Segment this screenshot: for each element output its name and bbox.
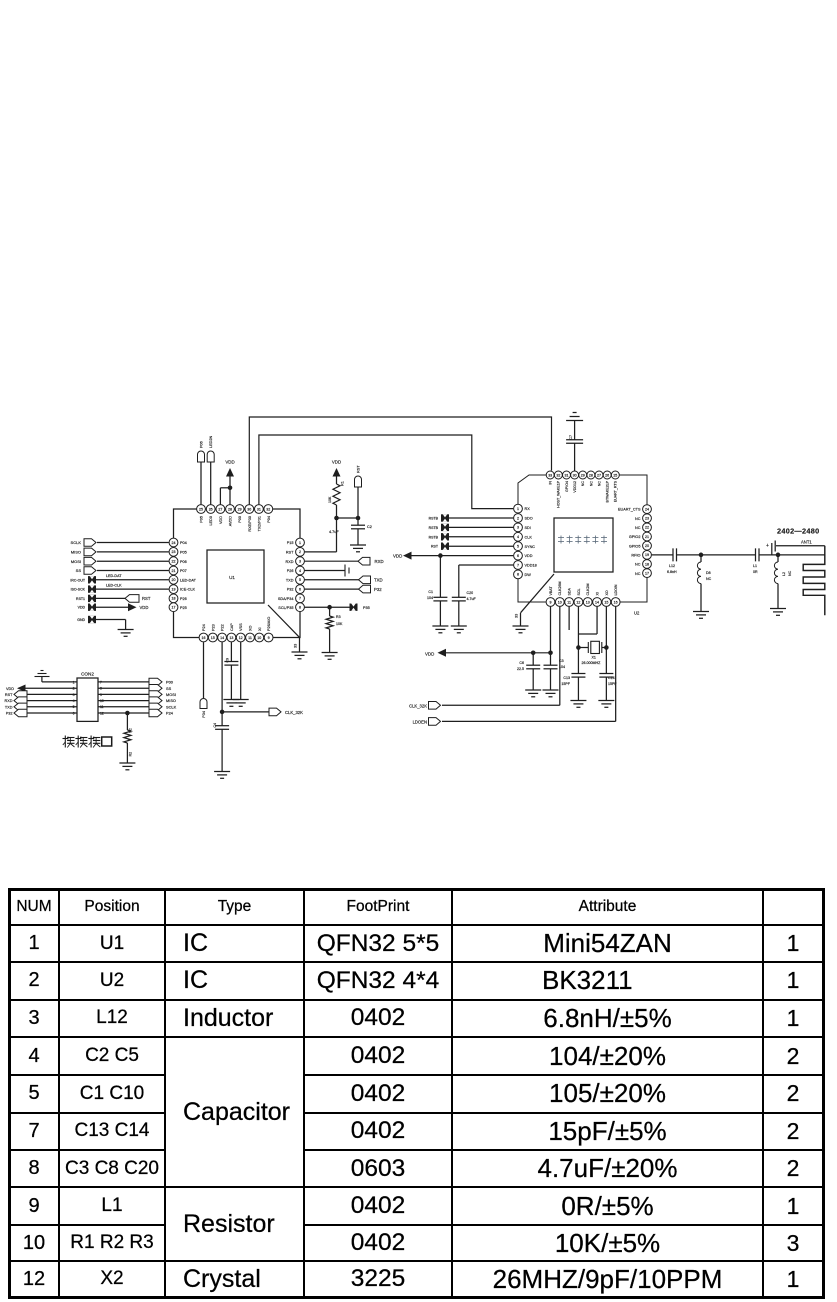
svg-text:LED0: LED0 <box>209 516 213 526</box>
svg-text:TXD: TXD <box>5 705 13 709</box>
svg-text:4.7uF: 4.7uF <box>467 597 477 601</box>
svg-text:22.5: 22.5 <box>517 667 524 671</box>
svg-text:D8: D8 <box>706 571 711 575</box>
svg-text:RXD: RXD <box>375 559 384 564</box>
svg-text:1: 1 <box>73 680 75 684</box>
svg-text:XI: XI <box>595 592 599 595</box>
svg-text:SS: SS <box>166 686 172 691</box>
svg-text:GPIO2: GPIO2 <box>629 535 641 539</box>
svg-text:6: 6 <box>517 554 519 558</box>
svg-text:28: 28 <box>228 507 232 511</box>
svg-text:DW: DW <box>525 573 532 577</box>
svg-text:P26/AIO: P26/AIO <box>267 617 271 631</box>
svg-text:CLK: CLK <box>525 535 533 539</box>
svg-text:12: 12 <box>239 636 243 640</box>
svg-text:11: 11 <box>567 600 571 604</box>
svg-text:26: 26 <box>605 473 609 477</box>
svg-text:20: 20 <box>172 578 176 582</box>
svg-text:VSS: VSS <box>239 623 243 631</box>
svg-text:25: 25 <box>613 473 617 477</box>
svg-text:LED-DAT: LED-DAT <box>106 574 122 578</box>
svg-text:3: 3 <box>73 693 75 697</box>
svg-text:4.7uF: 4.7uF <box>329 530 339 534</box>
svg-text:P04: P04 <box>267 516 271 523</box>
svg-text:LED-CLK: LED-CLK <box>106 583 122 587</box>
svg-text:6: 6 <box>73 711 75 715</box>
svg-text:ICE-CLK: ICE-CLK <box>180 588 195 592</box>
svg-text:16: 16 <box>614 600 618 604</box>
svg-text:10K: 10K <box>328 496 332 503</box>
svg-text:TXD: TXD <box>286 578 294 582</box>
svg-text:16: 16 <box>202 636 206 640</box>
svg-text:32: 32 <box>266 507 270 511</box>
svg-text:14: 14 <box>220 636 224 640</box>
svg-text:IRC-OUT: IRC-OUT <box>70 578 85 582</box>
svg-text:1: 1 <box>517 507 519 511</box>
svg-text:BTWAKE2LP: BTWAKE2LP <box>606 480 610 502</box>
svg-text:P26: P26 <box>287 569 294 573</box>
svg-text:4: 4 <box>73 699 75 703</box>
svg-text:14: 14 <box>595 600 599 604</box>
svg-text:L1: L1 <box>753 564 757 568</box>
svg-text:23: 23 <box>645 517 649 521</box>
svg-text:L2: L2 <box>782 572 786 576</box>
svg-text:C13: C13 <box>563 676 570 680</box>
svg-text:29: 29 <box>581 473 585 477</box>
svg-text:X1: X1 <box>592 656 596 660</box>
svg-text:ANT1: ANT1 <box>801 540 812 545</box>
svg-text:5: 5 <box>299 578 301 582</box>
svg-text:27: 27 <box>597 473 601 477</box>
svg-text:15PF: 15PF <box>561 682 570 686</box>
svg-text:22: 22 <box>645 526 649 530</box>
svg-text:NC: NC <box>635 526 641 530</box>
svg-text:LDOEN: LDOEN <box>413 720 427 725</box>
svg-text:GPIO5: GPIO5 <box>629 544 641 548</box>
svg-text:CAP: CAP <box>230 623 234 631</box>
svg-text:20: 20 <box>645 544 649 548</box>
svg-text:NC: NC <box>597 481 601 487</box>
svg-text:7: 7 <box>299 597 301 601</box>
svg-text:30: 30 <box>573 473 577 477</box>
svg-text:7: 7 <box>100 680 102 684</box>
svg-text:2: 2 <box>73 687 75 691</box>
svg-text:23: 23 <box>172 550 176 554</box>
svg-text:R2: R2 <box>129 752 133 756</box>
svg-text:VDD: VDD <box>225 460 234 465</box>
svg-text:2: 2 <box>517 516 519 520</box>
svg-text:9: 9 <box>550 600 552 604</box>
svg-text:26.000MHZ: 26.000MHZ <box>582 661 602 665</box>
svg-text:28: 28 <box>589 473 593 477</box>
svg-text:AVDD: AVDD <box>229 516 233 527</box>
svg-text:MOSI: MOSI <box>166 692 176 697</box>
svg-text:R1: R1 <box>341 481 345 486</box>
svg-text:SS: SS <box>76 568 82 573</box>
svg-text:RST: RST <box>5 693 13 697</box>
svg-text:21: 21 <box>172 569 176 573</box>
svg-text:104: 104 <box>427 596 433 600</box>
svg-text:RXD: RXD <box>285 560 293 564</box>
svg-text:RXE/P30: RXE/P30 <box>248 516 252 532</box>
svg-text:11: 11 <box>100 705 104 709</box>
svg-text:U2: U2 <box>634 611 640 616</box>
svg-text:30: 30 <box>247 507 251 511</box>
svg-text:P00: P00 <box>238 516 242 523</box>
svg-text:CLK_32K: CLK_32K <box>409 704 427 709</box>
svg-text:NC: NC <box>635 572 641 576</box>
svg-text:10: 10 <box>257 636 261 640</box>
svg-text:2402—2480: 2402—2480 <box>777 527 819 536</box>
svg-text:P24: P24 <box>166 711 174 716</box>
svg-text:SCLK: SCLK <box>71 540 82 545</box>
svg-text:ISO-SCK: ISO-SCK <box>71 588 86 592</box>
svg-text:TXD/P31: TXD/P31 <box>257 516 261 531</box>
svg-text:P34: P34 <box>202 711 206 718</box>
svg-text:26: 26 <box>209 507 213 511</box>
svg-text:12: 12 <box>100 711 104 715</box>
svg-text:3: 3 <box>517 526 519 530</box>
svg-text:VDD18: VDD18 <box>525 564 537 568</box>
svg-text:VDD12: VDD12 <box>573 481 577 493</box>
svg-text:18: 18 <box>645 562 649 566</box>
svg-text:8: 8 <box>299 606 301 610</box>
svg-text:P05: P05 <box>180 551 187 555</box>
svg-text:VBAT: VBAT <box>549 586 553 596</box>
svg-text:VDD: VDD <box>332 460 341 465</box>
svg-text:VDD: VDD <box>78 606 86 610</box>
svg-text:31: 31 <box>257 507 261 511</box>
svg-text:NC: NC <box>706 577 712 581</box>
svg-text:8: 8 <box>100 687 102 691</box>
svg-text:6.8nH: 6.8nH <box>667 570 677 574</box>
svg-text:XO: XO <box>249 625 253 631</box>
svg-text:P35: P35 <box>363 606 370 610</box>
svg-text:8: 8 <box>517 573 519 577</box>
svg-text:VDD: VDD <box>393 554 402 559</box>
svg-text:4: 4 <box>517 535 519 539</box>
svg-text:MISO: MISO <box>71 550 81 555</box>
svg-text:33: 33 <box>548 473 552 477</box>
svg-text:24: 24 <box>172 541 176 545</box>
svg-text:P32: P32 <box>287 588 294 592</box>
svg-text:P25: P25 <box>180 606 187 610</box>
svg-text:27: 27 <box>218 507 222 511</box>
svg-text:10: 10 <box>558 600 562 604</box>
svg-text:0R: 0R <box>753 570 758 574</box>
svg-text:21: 21 <box>645 535 649 539</box>
svg-text:25: 25 <box>199 507 203 511</box>
svg-text:TXD: TXD <box>374 578 383 583</box>
svg-text:3: 3 <box>299 560 301 564</box>
svg-text:CON2: CON2 <box>81 672 94 677</box>
svg-text:R3: R3 <box>336 615 341 619</box>
svg-text:VDD: VDD <box>6 687 14 691</box>
svg-text:P24: P24 <box>202 624 206 631</box>
svg-text:5: 5 <box>73 705 75 709</box>
svg-text:VDD: VDD <box>425 652 434 657</box>
svg-text:7: 7 <box>517 563 519 567</box>
svg-text:EUART_CTS: EUART_CTS <box>618 508 641 512</box>
svg-text:P15: P15 <box>287 541 294 545</box>
svg-text:P23: P23 <box>211 624 215 631</box>
svg-text:XI: XI <box>258 627 262 631</box>
svg-text:LDOIN: LDOIN <box>614 584 618 595</box>
svg-text:NC: NC <box>635 517 641 521</box>
svg-text:CLK_32K: CLK_32K <box>285 710 303 715</box>
svg-text:11: 11 <box>248 636 252 640</box>
svg-text:P26: P26 <box>180 597 187 601</box>
svg-text:P05: P05 <box>200 516 204 523</box>
svg-text:SDI: SDI <box>525 526 531 530</box>
svg-text:17: 17 <box>645 571 649 575</box>
svg-text:18: 18 <box>172 597 176 601</box>
svg-text:31: 31 <box>564 473 568 477</box>
svg-text:19: 19 <box>172 587 176 591</box>
svg-text:4: 4 <box>299 569 301 573</box>
svg-text:13: 13 <box>586 600 590 604</box>
svg-text:22: 22 <box>172 560 176 564</box>
svg-text:P04: P04 <box>180 541 187 545</box>
svg-text:P32: P32 <box>6 712 13 716</box>
svg-text:RST: RST <box>142 596 151 601</box>
svg-text:EUART_RTS: EUART_RTS <box>614 480 618 502</box>
svg-text:29: 29 <box>238 507 242 511</box>
svg-text:GPIO4: GPIO4 <box>565 481 569 492</box>
svg-text:13: 13 <box>229 636 233 640</box>
svg-text:+: + <box>766 543 769 549</box>
svg-text:LED-DAT: LED-DAT <box>180 578 197 582</box>
svg-text:SDO: SDO <box>525 517 533 521</box>
svg-text:RSTB: RSTB <box>429 526 439 530</box>
svg-text:9: 9 <box>268 636 270 640</box>
svg-text:P32: P32 <box>374 587 382 592</box>
svg-text:P06: P06 <box>180 560 187 564</box>
svg-text:MOSI: MOSI <box>71 559 81 564</box>
svg-text:33: 33 <box>294 644 298 648</box>
svg-text:C20: C20 <box>467 591 474 595</box>
svg-text:32: 32 <box>556 473 560 477</box>
svg-text:2: 2 <box>299 550 301 554</box>
svg-text:15: 15 <box>211 636 215 640</box>
svg-text:C4: C4 <box>213 723 217 728</box>
svg-text:NC: NC <box>589 481 593 487</box>
svg-text:RST: RST <box>286 551 294 555</box>
svg-text:P22: P22 <box>221 624 225 631</box>
svg-text:MISO: MISO <box>166 698 176 703</box>
svg-text:6: 6 <box>299 587 301 591</box>
svg-text:C7: C7 <box>569 435 573 440</box>
svg-text:17: 17 <box>172 606 176 610</box>
svg-text:VDD: VDD <box>140 605 149 610</box>
svg-text:P00: P00 <box>166 680 174 685</box>
svg-text:VDD: VDD <box>219 516 223 524</box>
svg-text:RXD: RXD <box>4 699 12 703</box>
svg-text:IN: IN <box>549 481 553 485</box>
svg-text:SCL: SCL <box>577 589 581 596</box>
svg-text:XO: XO <box>605 590 609 595</box>
svg-text:12: 12 <box>576 600 580 604</box>
svg-text:VDD: VDD <box>525 554 533 558</box>
svg-text:CLK2M: CLK2M <box>586 584 590 596</box>
svg-text:15: 15 <box>604 600 608 604</box>
svg-text:L12: L12 <box>669 564 675 568</box>
svg-text:NC: NC <box>581 481 585 487</box>
svg-text:SCL/P35: SCL/P35 <box>278 606 293 610</box>
svg-text:LED2N: LED2N <box>209 436 213 448</box>
svg-text:C1: C1 <box>428 590 433 594</box>
svg-text:RSTB: RSTB <box>429 535 439 539</box>
svg-text:19: 19 <box>645 553 649 557</box>
svg-text:U1: U1 <box>229 575 235 580</box>
svg-text:15PF: 15PF <box>608 682 617 686</box>
svg-text:NC: NC <box>635 563 641 567</box>
svg-text:C14: C14 <box>608 676 615 680</box>
svg-text:SYNC: SYNC <box>525 545 536 549</box>
svg-text:5: 5 <box>517 545 519 549</box>
svg-text:SCLK: SCLK <box>166 704 177 709</box>
svg-text:24: 24 <box>645 507 649 511</box>
svg-text:C2: C2 <box>367 525 372 529</box>
svg-text:SDA: SDA <box>568 588 572 596</box>
svg-text:10: 10 <box>100 699 104 703</box>
svg-text:C9: C9 <box>226 658 230 663</box>
svg-text:RST1: RST1 <box>76 597 85 601</box>
svg-text:1: 1 <box>299 541 301 545</box>
svg-text:RST: RST <box>357 465 361 473</box>
svg-text:RFIO: RFIO <box>631 553 640 557</box>
svg-text:NC: NC <box>788 570 792 576</box>
svg-text:P07: P07 <box>180 569 187 573</box>
svg-text:SDA/P34: SDA/P34 <box>278 597 294 601</box>
svg-text:RX: RX <box>525 507 531 511</box>
svg-text:GND: GND <box>77 618 85 622</box>
svg-text:9: 9 <box>100 693 102 697</box>
svg-text:P06: P06 <box>200 441 204 448</box>
svg-text:33: 33 <box>515 614 519 618</box>
svg-text:C6: C6 <box>519 661 524 665</box>
svg-text:RST: RST <box>431 545 439 549</box>
svg-text:10K: 10K <box>336 622 343 626</box>
svg-text:HOST_WAKE1P: HOST_WAKE1P <box>557 480 561 507</box>
svg-text:RSTB: RSTB <box>429 517 439 521</box>
svg-text:CLK26M: CLK26M <box>558 582 562 596</box>
